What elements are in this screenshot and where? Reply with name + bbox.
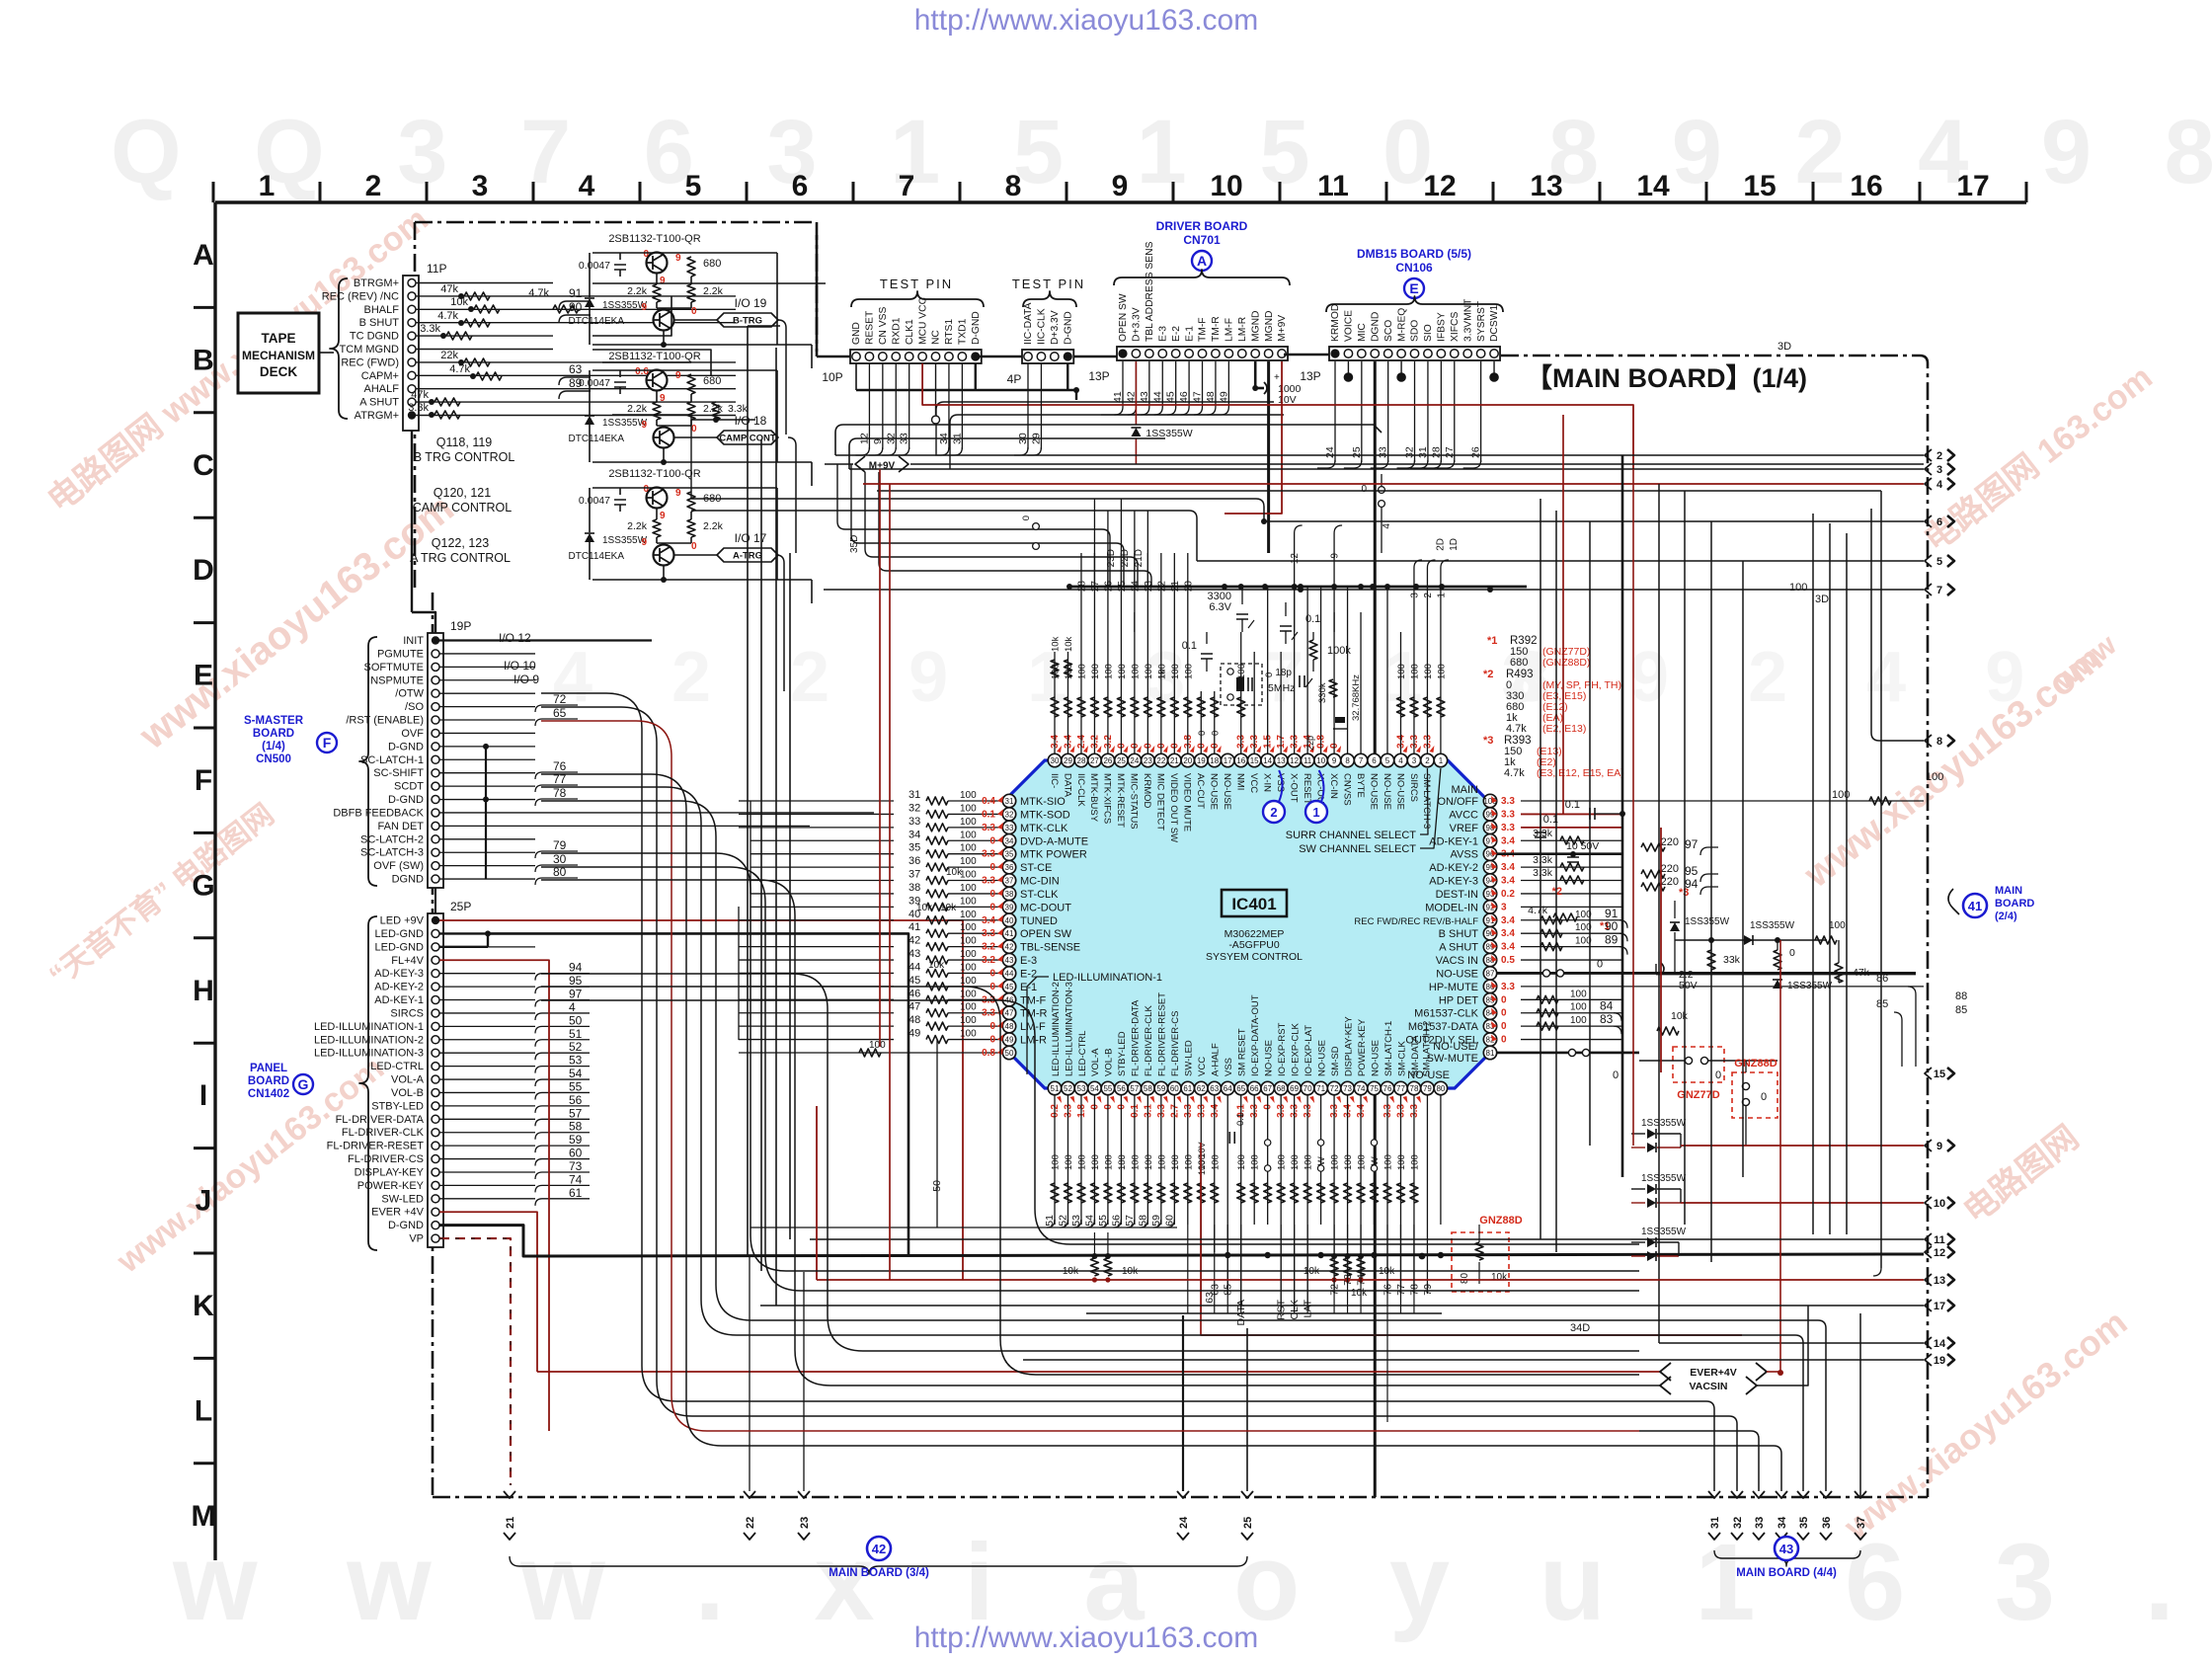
- connector TEST PIN 10P: [850, 296, 982, 363]
- svg-text:9: 9: [660, 393, 666, 404]
- svg-text:23D: 23D: [1106, 549, 1117, 567]
- wire EVER+4V red: [439, 1212, 537, 1372]
- svg-text:(2/4): (2/4): [1995, 911, 2017, 922]
- svg-text:3: 3: [1936, 464, 1942, 476]
- svg-text:10k: 10k: [916, 903, 933, 913]
- svg-text:SYSYEM CONTROL: SYSYEM CONTROL: [1206, 951, 1303, 963]
- svg-text:100: 100: [960, 830, 977, 840]
- svg-text:31: 31: [1709, 1517, 1721, 1529]
- svg-text:MIC: MIC: [1357, 323, 1368, 342]
- svg-text:8: 8: [1936, 736, 1942, 748]
- svg-text:25: 25: [1242, 1517, 1254, 1529]
- svg-text:74: 74: [1357, 1084, 1366, 1093]
- svg-text:3.3k: 3.3k: [408, 402, 429, 414]
- diode group 1SS355W node9: [1631, 1118, 1924, 1152]
- svg-text:B-TRG: B-TRG: [733, 315, 762, 326]
- svg-text:100: 100: [960, 803, 977, 814]
- svg-text:65: 65: [553, 706, 567, 720]
- svg-text:100: 100: [1330, 1154, 1341, 1170]
- transistor group CAMP Q120 Q121: [568, 351, 812, 486]
- wire bus to node 2: [835, 425, 1924, 455]
- svg-text:XIFCS: XIFCS: [1450, 312, 1461, 342]
- svg-text:3.3: 3.3: [1501, 809, 1515, 820]
- svg-text:48: 48: [1005, 1022, 1014, 1031]
- svg-text:28: 28: [1077, 756, 1086, 765]
- jumper circles bottom cols: [1264, 1140, 1377, 1171]
- svg-text:DRIVER BOARD: DRIVER BOARD: [1156, 219, 1248, 233]
- svg-text:TM-R: TM-R: [1020, 1008, 1048, 1020]
- svg-text:97: 97: [1685, 837, 1698, 851]
- svg-text:4.7k: 4.7k: [528, 287, 549, 299]
- svg-text:STBY-LED: STBY-LED: [1117, 1031, 1128, 1076]
- svg-text:11P: 11P: [427, 262, 446, 276]
- svg-text:AVSS: AVSS: [1450, 849, 1478, 861]
- board border dash-dot top: [415, 221, 817, 224]
- capacitor 18p: [1275, 668, 1312, 687]
- svg-text:22: 22: [1156, 756, 1165, 765]
- svg-text:D-GND: D-GND: [1063, 311, 1073, 345]
- bottom column numbers: [750, 1040, 1444, 1325]
- svg-text:D+3.3V: D+3.3V: [1050, 310, 1061, 345]
- svg-text:MTK-SIO: MTK-SIO: [1020, 796, 1066, 808]
- svg-text:37: 37: [908, 869, 920, 881]
- svg-text:16: 16: [1236, 756, 1245, 765]
- 10k pullup labels left rows: [916, 867, 963, 971]
- svg-text:NSPMUTE: NSPMUTE: [370, 674, 424, 686]
- svg-text:56: 56: [1117, 1084, 1126, 1093]
- svg-text:12: 12: [1290, 756, 1299, 765]
- resistors 10k bottom middle trio: [1303, 1253, 1395, 1299]
- svg-text:STBY-LED: STBY-LED: [371, 1100, 424, 1112]
- svg-text:RESET: RESET: [865, 310, 876, 345]
- wire transistor outputs right: [776, 320, 796, 691]
- svg-text:31: 31: [1005, 797, 1014, 806]
- resistor R393 annotation: [1483, 735, 1624, 779]
- main board 2/4 reference: [1948, 885, 2034, 922]
- wire bundle bottom left L-shapes: [541, 693, 1639, 1446]
- svg-text:SC-LATCH-1: SC-LATCH-1: [360, 754, 424, 766]
- svg-text:60: 60: [1170, 1084, 1179, 1093]
- svg-text:SCO: SCO: [1383, 320, 1394, 342]
- svg-text:15: 15: [1743, 170, 1776, 202]
- svg-text:63: 63: [1210, 1084, 1219, 1093]
- svg-text:FL-DRIVER-DATA: FL-DRIVER-DATA: [1131, 999, 1142, 1076]
- svg-text:6: 6: [1936, 516, 1942, 528]
- svg-text:2D: 2D: [1435, 538, 1446, 551]
- wire columns IC bottom to bus: [1241, 1225, 1414, 1422]
- svg-text:TC DGND: TC DGND: [350, 331, 399, 343]
- wire verticals red left pair: [880, 469, 890, 1280]
- svg-text:51: 51: [1051, 1084, 1060, 1093]
- wire verticals right of CN106: [1540, 455, 1924, 1497]
- svg-text:100: 100: [960, 976, 977, 987]
- column numbers 28-20: [1076, 553, 1194, 632]
- svg-text:49: 49: [1218, 391, 1229, 403]
- svg-text:0: 0: [1613, 1069, 1619, 1081]
- wire D+3.3V red to right: [1055, 405, 1633, 469]
- svg-text:24: 24: [1324, 446, 1336, 458]
- transistor group A-TRG Q122 Q123: [568, 468, 812, 603]
- svg-text:A TRG CONTROL: A TRG CONTROL: [410, 551, 511, 565]
- svg-text:4: 4: [569, 1000, 576, 1014]
- svg-text:38: 38: [1005, 890, 1014, 899]
- svg-text:80: 80: [1436, 1084, 1445, 1093]
- svg-text:66: 66: [1250, 1084, 1259, 1093]
- resistors 220 rows right: [1641, 836, 1718, 895]
- svg-text:NO-USE: NO-USE: [1382, 773, 1392, 810]
- svg-text:SC-LATCH-2: SC-LATCH-2: [360, 833, 424, 845]
- svg-text:680: 680: [703, 375, 721, 387]
- svg-text:47k: 47k: [411, 389, 429, 401]
- svg-text:40: 40: [1005, 916, 1014, 925]
- svg-text:100: 100: [960, 910, 977, 920]
- svg-text:220: 220: [1661, 863, 1679, 875]
- svg-text:100: 100: [1076, 1154, 1087, 1170]
- svg-text:DGND: DGND: [392, 874, 424, 886]
- svg-text:24: 24: [1178, 1516, 1190, 1529]
- board border dash-dot bottom: [433, 1496, 1928, 1499]
- svg-text:100: 100: [1144, 664, 1154, 679]
- svg-text:BOARD: BOARD: [253, 728, 294, 740]
- svg-text:MAIN BOARD (3/4): MAIN BOARD (3/4): [829, 1567, 929, 1579]
- svg-text:100: 100: [960, 817, 977, 828]
- svg-text:*1: *1: [1487, 635, 1497, 647]
- svg-text:1SS355W: 1SS355W: [1685, 916, 1730, 927]
- diode group 1SS355W right middle: [1631, 1227, 1687, 1261]
- svg-text:74: 74: [569, 1172, 583, 1186]
- svg-text:5MHz: 5MHz: [1268, 682, 1295, 694]
- svg-text:K: K: [193, 1290, 214, 1322]
- svg-text:100: 100: [960, 856, 977, 867]
- svg-text:50: 50: [569, 1013, 583, 1027]
- svg-text:10k: 10k: [1051, 636, 1062, 652]
- svg-text:330k: 330k: [1317, 682, 1328, 703]
- svg-text:30: 30: [553, 852, 567, 866]
- wire bus y497: [877, 490, 1881, 492]
- svg-text:11: 11: [1934, 1234, 1945, 1246]
- svg-text:9: 9: [1936, 1141, 1942, 1152]
- svg-text:5: 5: [1936, 556, 1942, 568]
- svg-text:B SHUT: B SHUT: [359, 317, 400, 329]
- svg-text:4: 4: [1398, 756, 1403, 765]
- svg-text:HP DET: HP DET: [1439, 994, 1478, 1006]
- svg-text:VP: VP: [409, 1233, 424, 1245]
- svg-text:0.0047: 0.0047: [579, 495, 610, 507]
- svg-text:69: 69: [1290, 1084, 1299, 1093]
- svg-text:PGMUTE: PGMUTE: [377, 648, 424, 660]
- svg-text:19: 19: [1934, 1355, 1945, 1367]
- resistor R392 annotation: [1487, 635, 1590, 669]
- svg-text:12: 12: [1934, 1247, 1945, 1259]
- svg-text:6.3V: 6.3V: [1209, 601, 1231, 613]
- svg-text:SM-SD: SM-SD: [1330, 1046, 1341, 1076]
- svg-text:【MAIN BOARD】(1/4): 【MAIN BOARD】(1/4): [1526, 363, 1807, 393]
- svg-text:TM-F: TM-F: [1020, 994, 1047, 1006]
- svg-text:http://www.xiaoyu163.com: http://www.xiaoyu163.com: [914, 1622, 1259, 1654]
- svg-text:2: 2: [1423, 593, 1434, 598]
- capacitor 3300 6.3V: [1208, 587, 1254, 632]
- ruler top: [213, 170, 2026, 202]
- svg-text:0.0047: 0.0047: [579, 260, 610, 272]
- svg-text:BYTE: BYTE: [1355, 773, 1366, 798]
- svg-text:2.2k: 2.2k: [703, 520, 724, 532]
- svg-text:35: 35: [908, 842, 920, 854]
- svg-text:22D: 22D: [1120, 549, 1131, 567]
- svg-text:VOL-B: VOL-B: [1104, 1048, 1115, 1076]
- svg-text:C: C: [193, 449, 214, 482]
- svg-text:1: 1: [1312, 805, 1319, 820]
- svg-text:94: 94: [569, 961, 583, 975]
- svg-text:100: 100: [1303, 1154, 1314, 1170]
- svg-text:100: 100: [960, 1002, 977, 1013]
- wire D-GND panel thick: [439, 1226, 1924, 1256]
- svg-text:2: 2: [365, 170, 382, 202]
- svg-text:VCC: VCC: [1248, 773, 1259, 793]
- bottom arrows nodes 21-25: [504, 1491, 1254, 1540]
- dgnd bus 19P: [483, 744, 489, 879]
- watermark middle digits: [553, 638, 2054, 717]
- svg-text:3.4: 3.4: [1501, 915, 1515, 926]
- wire stubs top pins 15-5: [1238, 584, 1390, 753]
- svg-text:47k: 47k: [440, 283, 458, 295]
- svg-text:61: 61: [1183, 1084, 1192, 1093]
- svg-text:DTC114EKA: DTC114EKA: [568, 434, 624, 444]
- svg-text:TEST PIN: TEST PIN: [1012, 277, 1085, 291]
- svg-text:0: 0: [691, 541, 697, 552]
- svg-text:61: 61: [569, 1186, 583, 1200]
- svg-text:37: 37: [1005, 877, 1014, 886]
- svg-text:ST-CE: ST-CE: [1020, 862, 1052, 874]
- svg-text:TUNED: TUNED: [1020, 915, 1058, 927]
- svg-text:100: 100: [1130, 1154, 1141, 1170]
- svg-text:54: 54: [1090, 1084, 1099, 1093]
- svg-text:BHALF: BHALF: [364, 304, 400, 316]
- svg-text:14: 14: [1934, 1338, 1946, 1350]
- svg-text:SIO: SIO: [1423, 324, 1434, 342]
- svg-text:CAMP CONTROL: CAMP CONTROL: [413, 501, 513, 515]
- svg-text:I/O 10: I/O 10: [504, 659, 536, 673]
- svg-text:MTK-SOD: MTK-SOD: [1020, 809, 1070, 821]
- svg-text:4.7k: 4.7k: [449, 363, 470, 375]
- svg-text:100: 100: [1789, 582, 1807, 594]
- svg-text:E-1: E-1: [1020, 982, 1037, 993]
- svg-text:26: 26: [1103, 756, 1112, 765]
- svg-text:SIRCS: SIRCS: [1408, 773, 1419, 802]
- svg-text:2.2k: 2.2k: [703, 285, 724, 297]
- svg-text:0: 0: [1501, 1021, 1507, 1032]
- svg-text:AD-KEY-1: AD-KEY-1: [374, 994, 424, 1006]
- svg-text:GNZ88D: GNZ88D: [1479, 1215, 1522, 1227]
- svg-text:33: 33: [1378, 446, 1389, 458]
- svg-text:0: 0: [643, 484, 649, 495]
- svg-text:34: 34: [1777, 1516, 1788, 1529]
- svg-text:0.1: 0.1: [1565, 799, 1580, 811]
- svg-text:FL-DRIVER-CS: FL-DRIVER-CS: [1170, 1010, 1181, 1076]
- svg-text:31: 31: [1417, 446, 1429, 458]
- svg-text:100: 100: [1144, 1154, 1154, 1170]
- wires 25P pins right: [439, 933, 535, 1198]
- svg-text:21: 21: [1170, 756, 1179, 765]
- svg-text:LM-R: LM-R: [1237, 317, 1248, 342]
- svg-text:VOL-A: VOL-A: [1090, 1048, 1101, 1076]
- columns below IC401: [1050, 1095, 1441, 1252]
- svg-text:3.3: 3.3: [1501, 796, 1515, 807]
- svg-text:100: 100: [1383, 1154, 1394, 1170]
- svg-text:L: L: [195, 1394, 212, 1427]
- svg-text:E-2: E-2: [1171, 326, 1182, 342]
- capacitor 10 50V: [1566, 840, 1599, 862]
- svg-text:100: 100: [1051, 1154, 1062, 1170]
- svg-text:3.4: 3.4: [982, 915, 995, 926]
- svg-text:A: A: [1197, 253, 1207, 269]
- svg-text:3: 3: [1409, 593, 1420, 598]
- svg-text:72: 72: [1330, 1084, 1339, 1093]
- svg-text:GNZ88D: GNZ88D: [1734, 1058, 1777, 1069]
- svg-text:M61537-DATA: M61537-DATA: [1408, 1021, 1479, 1033]
- svg-text:680: 680: [1510, 657, 1528, 669]
- svg-text:100: 100: [1436, 664, 1447, 679]
- svg-text:44: 44: [1151, 391, 1163, 403]
- svg-text:MCU VCC: MCU VCC: [917, 296, 928, 345]
- svg-text:88: 88: [1955, 990, 1967, 1002]
- svg-text:LED-ILLUMINATION-3: LED-ILLUMINATION-3: [1064, 982, 1074, 1076]
- svg-text:BOARD: BOARD: [248, 1075, 289, 1087]
- svg-text:70: 70: [1303, 1084, 1312, 1093]
- wire FL+4V red: [439, 960, 549, 1431]
- capacitor 0.1 bottom: [1197, 1113, 1246, 1175]
- svg-text:VACS IN: VACS IN: [1436, 955, 1478, 967]
- svg-text:35: 35: [1005, 850, 1014, 859]
- svg-text:7: 7: [1936, 585, 1942, 596]
- svg-text:E: E: [194, 660, 213, 692]
- wire M+9V CN701 down red: [1224, 361, 1282, 514]
- surr channel select labels: [1286, 768, 1441, 855]
- transistor group B-TRG Q118 Q119: [568, 233, 812, 368]
- svg-text:52: 52: [569, 1040, 583, 1054]
- svg-text:64: 64: [1224, 1084, 1232, 1093]
- svg-text:1: 1: [1436, 593, 1447, 598]
- svg-text:0: 0: [643, 249, 649, 260]
- svg-text:100k: 100k: [1327, 645, 1351, 657]
- svg-text:0: 0: [989, 889, 995, 900]
- svg-text:F: F: [323, 735, 332, 751]
- svg-text:LED-GND: LED-GND: [374, 928, 424, 940]
- svg-text:6: 6: [792, 170, 809, 202]
- svg-text:NO-USE: NO-USE: [1394, 773, 1405, 810]
- svg-text:LED-ILLUMINATION-2: LED-ILLUMINATION-2: [1051, 982, 1062, 1076]
- svg-text:SDO: SDO: [1410, 320, 1421, 342]
- svg-text:100: 100: [1570, 1002, 1587, 1013]
- wire bus CN701 nets left: [936, 402, 1284, 469]
- svg-text:OPEN SW: OPEN SW: [1020, 928, 1072, 940]
- rows 91 90 89 resistors: [1540, 907, 1627, 955]
- resistor 10k row82: [1657, 1010, 1689, 1035]
- svg-text:Q122, 123: Q122, 123: [432, 536, 489, 550]
- wires TEST PIN 4P down: [1014, 363, 1067, 455]
- svg-text:86: 86: [1876, 973, 1888, 985]
- net numbers 25P: [535, 961, 590, 1206]
- svg-text:FAN DET: FAN DET: [378, 821, 425, 832]
- svg-text:19P: 19P: [450, 619, 471, 633]
- svg-text:33: 33: [1754, 1517, 1766, 1529]
- svg-text:D-GND: D-GND: [388, 741, 424, 752]
- svg-text:9: 9: [872, 438, 884, 444]
- svg-text:SM-DATA: SM-DATA: [1410, 1035, 1421, 1076]
- svg-text:7: 7: [1359, 756, 1364, 765]
- capacitor 1000 10V: [1252, 361, 1301, 406]
- svg-text:3.3k: 3.3k: [420, 323, 440, 335]
- svg-text:45: 45: [908, 975, 920, 987]
- svg-text:CAPM+: CAPM+: [361, 370, 399, 382]
- svg-text:33: 33: [1005, 824, 1014, 832]
- svg-text:18: 18: [1210, 756, 1219, 765]
- svg-text:FL-DRIVER-CLK: FL-DRIVER-CLK: [1144, 1005, 1154, 1076]
- crystal 5MHz: [1221, 664, 1295, 705]
- bus wire top connectors: [817, 235, 1329, 356]
- svg-text:POWER-KEY: POWER-KEY: [357, 1180, 425, 1192]
- svg-text:B SHUT: B SHUT: [1439, 928, 1479, 940]
- svg-text:SIRCS: SIRCS: [390, 1007, 424, 1019]
- svg-text:0: 0: [1501, 1035, 1507, 1046]
- svg-text:38: 38: [908, 882, 920, 894]
- svg-text:NO-USE: NO-USE: [1263, 1040, 1274, 1076]
- s-master board label: [244, 715, 337, 765]
- svg-text:SM-LATCH-2: SM-LATCH-2: [1421, 1021, 1432, 1076]
- svg-text:GNZ77D: GNZ77D: [1677, 1089, 1719, 1101]
- wire verticals red right: [1563, 415, 1780, 1373]
- svg-text:8 9 2 4 9: 8 9 2 4 9: [1511, 638, 2054, 717]
- svg-text:100: 100: [960, 883, 977, 894]
- connector CN701 driver board: [1117, 241, 1288, 360]
- wire bus to node 8: [1871, 509, 1924, 741]
- svg-text:Q118, 119: Q118, 119: [436, 436, 493, 449]
- node 1 blue marker: [1305, 770, 1327, 823]
- svg-text:13: 13: [1277, 756, 1286, 765]
- svg-text:0.1: 0.1: [1235, 1113, 1246, 1126]
- svg-text:58: 58: [1144, 1084, 1152, 1093]
- svg-text:0.1: 0.1: [982, 809, 995, 820]
- svg-text:DTC114EKA: DTC114EKA: [568, 316, 624, 327]
- svg-text:(E2, E13): (E2, E13): [1542, 723, 1586, 735]
- svg-text:73: 73: [569, 1159, 583, 1173]
- svg-text:100: 100: [1170, 1154, 1181, 1170]
- svg-text:9: 9: [1112, 170, 1129, 202]
- svg-text:97: 97: [569, 988, 583, 1001]
- svg-text:0: 0: [1361, 484, 1367, 495]
- svg-text:15: 15: [1250, 756, 1259, 765]
- svg-text:8: 8: [1345, 756, 1350, 765]
- svg-text:0: 0: [1264, 673, 1275, 677]
- svg-text:AD-KEY-1: AD-KEY-1: [1429, 835, 1478, 847]
- wire MGND CN701 down: [1267, 361, 1270, 553]
- svg-text:SOFTMUTE: SOFTMUTE: [364, 662, 425, 673]
- labels 86 85 right corner: [1876, 973, 1916, 1067]
- svg-text:0.8: 0.8: [982, 1048, 995, 1059]
- svg-text:AD-KEY-2: AD-KEY-2: [374, 982, 424, 993]
- svg-text:MTK-CLK: MTK-CLK: [1020, 823, 1068, 834]
- io and net numbers 19P: [499, 631, 578, 885]
- svg-text:41: 41: [908, 921, 920, 933]
- svg-text:22p: 22p: [1305, 736, 1315, 751]
- wire DGND CN106 down: [1374, 361, 1377, 1497]
- svg-text:FL-DRIVER-CS: FL-DRIVER-CS: [348, 1153, 424, 1165]
- svg-text:35D: 35D: [849, 535, 860, 553]
- wire LED +9V red: [439, 920, 963, 1280]
- connector TEST PIN 4P: [1022, 302, 1073, 363]
- svg-text:LM-F: LM-F: [1224, 318, 1235, 342]
- svg-text:0: 0: [1761, 1091, 1767, 1103]
- wire bus y597 to node 7: [824, 589, 1924, 591]
